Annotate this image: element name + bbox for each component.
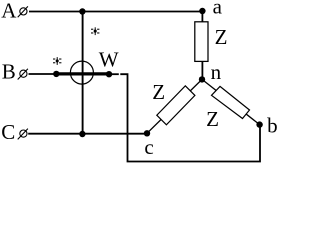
svg-text:n: n (211, 60, 222, 84)
svg-text:b: b (267, 113, 278, 137)
svg-text:W: W (99, 48, 119, 72)
svg-text:Z: Z (206, 107, 219, 131)
svg-text:C: C (1, 120, 15, 144)
svg-text:A: A (1, 0, 17, 23)
svg-text:a: a (213, 0, 223, 19)
svg-text:B: B (2, 60, 16, 84)
svg-text:Z: Z (215, 25, 228, 49)
svg-text:c: c (144, 135, 153, 159)
svg-text:Z: Z (152, 80, 165, 104)
